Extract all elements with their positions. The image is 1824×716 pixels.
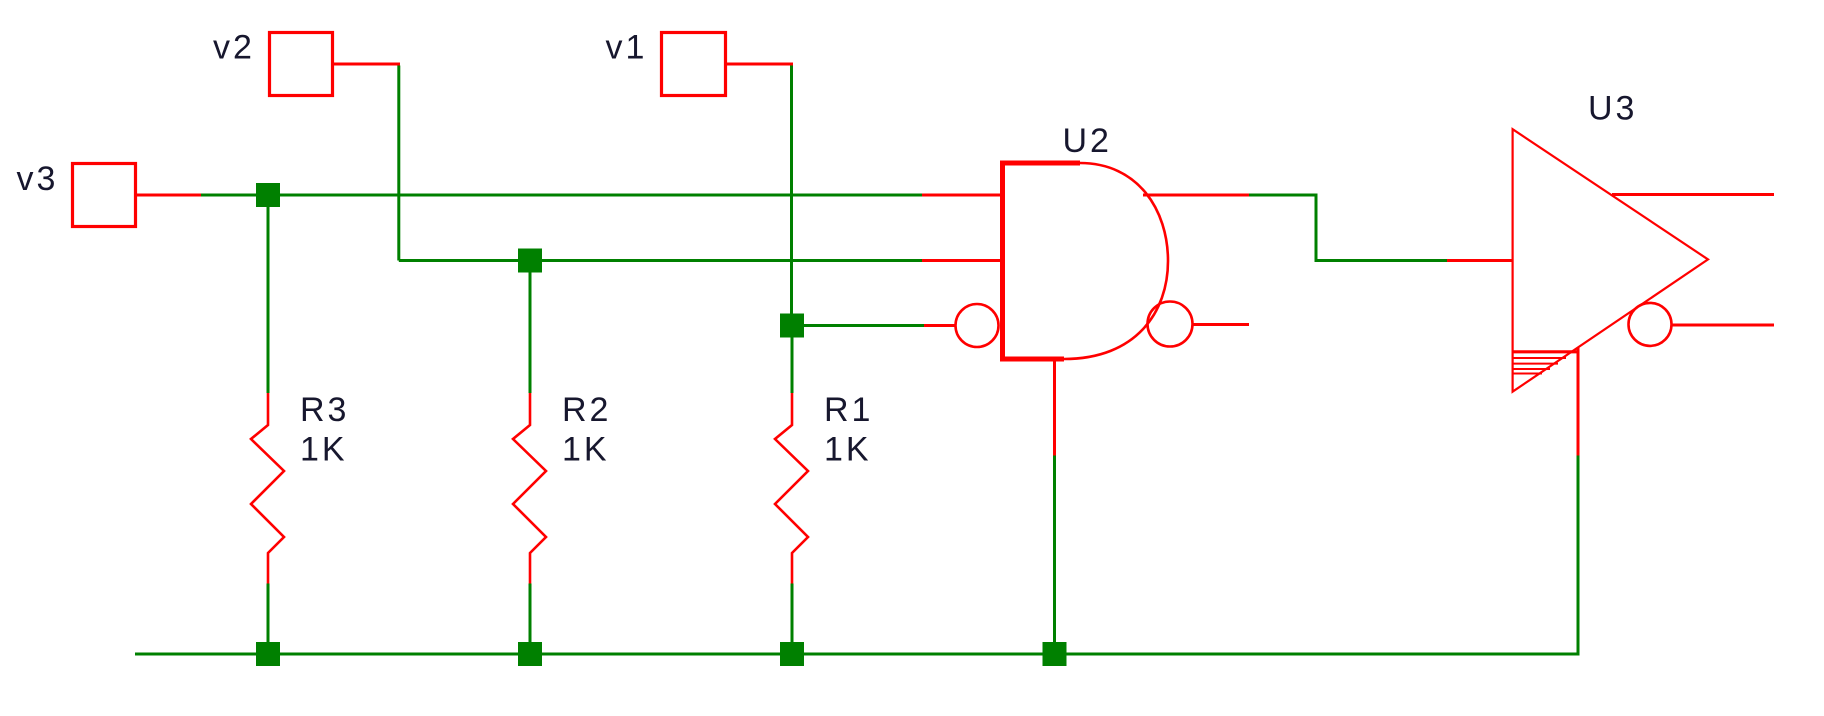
wire net3 pin stub to bubble <box>924 324 956 327</box>
U2 ground pin red segment <box>1053 359 1056 456</box>
svg-text:R2: R2 <box>562 391 611 429</box>
node bus junction R3 <box>256 642 280 666</box>
wire v2 vertical <box>397 66 400 261</box>
voltage source v3 <box>73 164 136 227</box>
wire v1 output stub <box>726 63 793 66</box>
buffer U3 body <box>1513 129 1708 392</box>
voltage source v1 <box>662 33 726 96</box>
svg-text:U3: U3 <box>1588 90 1637 128</box>
voltage source v2 <box>270 33 333 96</box>
node bus junction R1 <box>780 642 804 666</box>
svg-text:1K: 1K <box>300 431 348 469</box>
svg-text:v2: v2 <box>213 29 255 67</box>
U3 bottom pin green segment <box>1577 456 1580 655</box>
node bus junction U2 ground <box>1043 642 1067 666</box>
svg-text:1K: 1K <box>824 431 872 469</box>
wire v2 output stub <box>333 63 400 66</box>
U3 output wire <box>1612 193 1774 196</box>
svg-text:v3: v3 <box>17 160 59 198</box>
node junction net1/R3 <box>256 183 280 207</box>
svg-text:R1: R1 <box>824 391 873 429</box>
U2 output inversion bubble <box>1148 302 1193 347</box>
svg-text:U2: U2 <box>1063 122 1112 160</box>
resistor R2 <box>513 273 546 644</box>
resistor R3 <box>251 207 284 643</box>
U2 output pin red segment <box>1143 194 1249 197</box>
U2 bubble output stub <box>1193 323 1250 326</box>
svg-text:1K: 1K <box>562 431 610 469</box>
wire v3 output stub <box>136 194 201 197</box>
wire net2 green segment <box>399 259 922 262</box>
wire v1 vertical <box>790 66 793 316</box>
wire net2 pin stub to U2 <box>922 259 1001 262</box>
node junction net2/R2 <box>518 249 542 273</box>
wire U2 output to U3 green elbow <box>1249 195 1447 261</box>
wire U3 input pin stub <box>1447 259 1513 262</box>
wire ground bus <box>135 653 1580 656</box>
gate U2 body <box>1003 163 1169 359</box>
U2 input inversion bubble <box>956 304 999 347</box>
wire net3 green segment <box>792 324 924 327</box>
svg-text:R3: R3 <box>300 391 349 429</box>
resistor R1 <box>775 338 808 644</box>
U3 bubble output stub <box>1672 324 1775 327</box>
wire net1 pin stub to U2 <box>922 194 1001 197</box>
U2 ground pin green segment <box>1053 456 1056 644</box>
node junction net3/v1/R1 <box>780 314 804 338</box>
U3 tri-state hatch <box>1513 352 1577 374</box>
U3 enable inversion bubble <box>1629 303 1672 346</box>
svg-text:v1: v1 <box>606 29 648 67</box>
wire net1 green segment <box>201 194 922 197</box>
U3 bottom pin red segment <box>1577 347 1580 456</box>
node bus junction R2 <box>518 642 542 666</box>
